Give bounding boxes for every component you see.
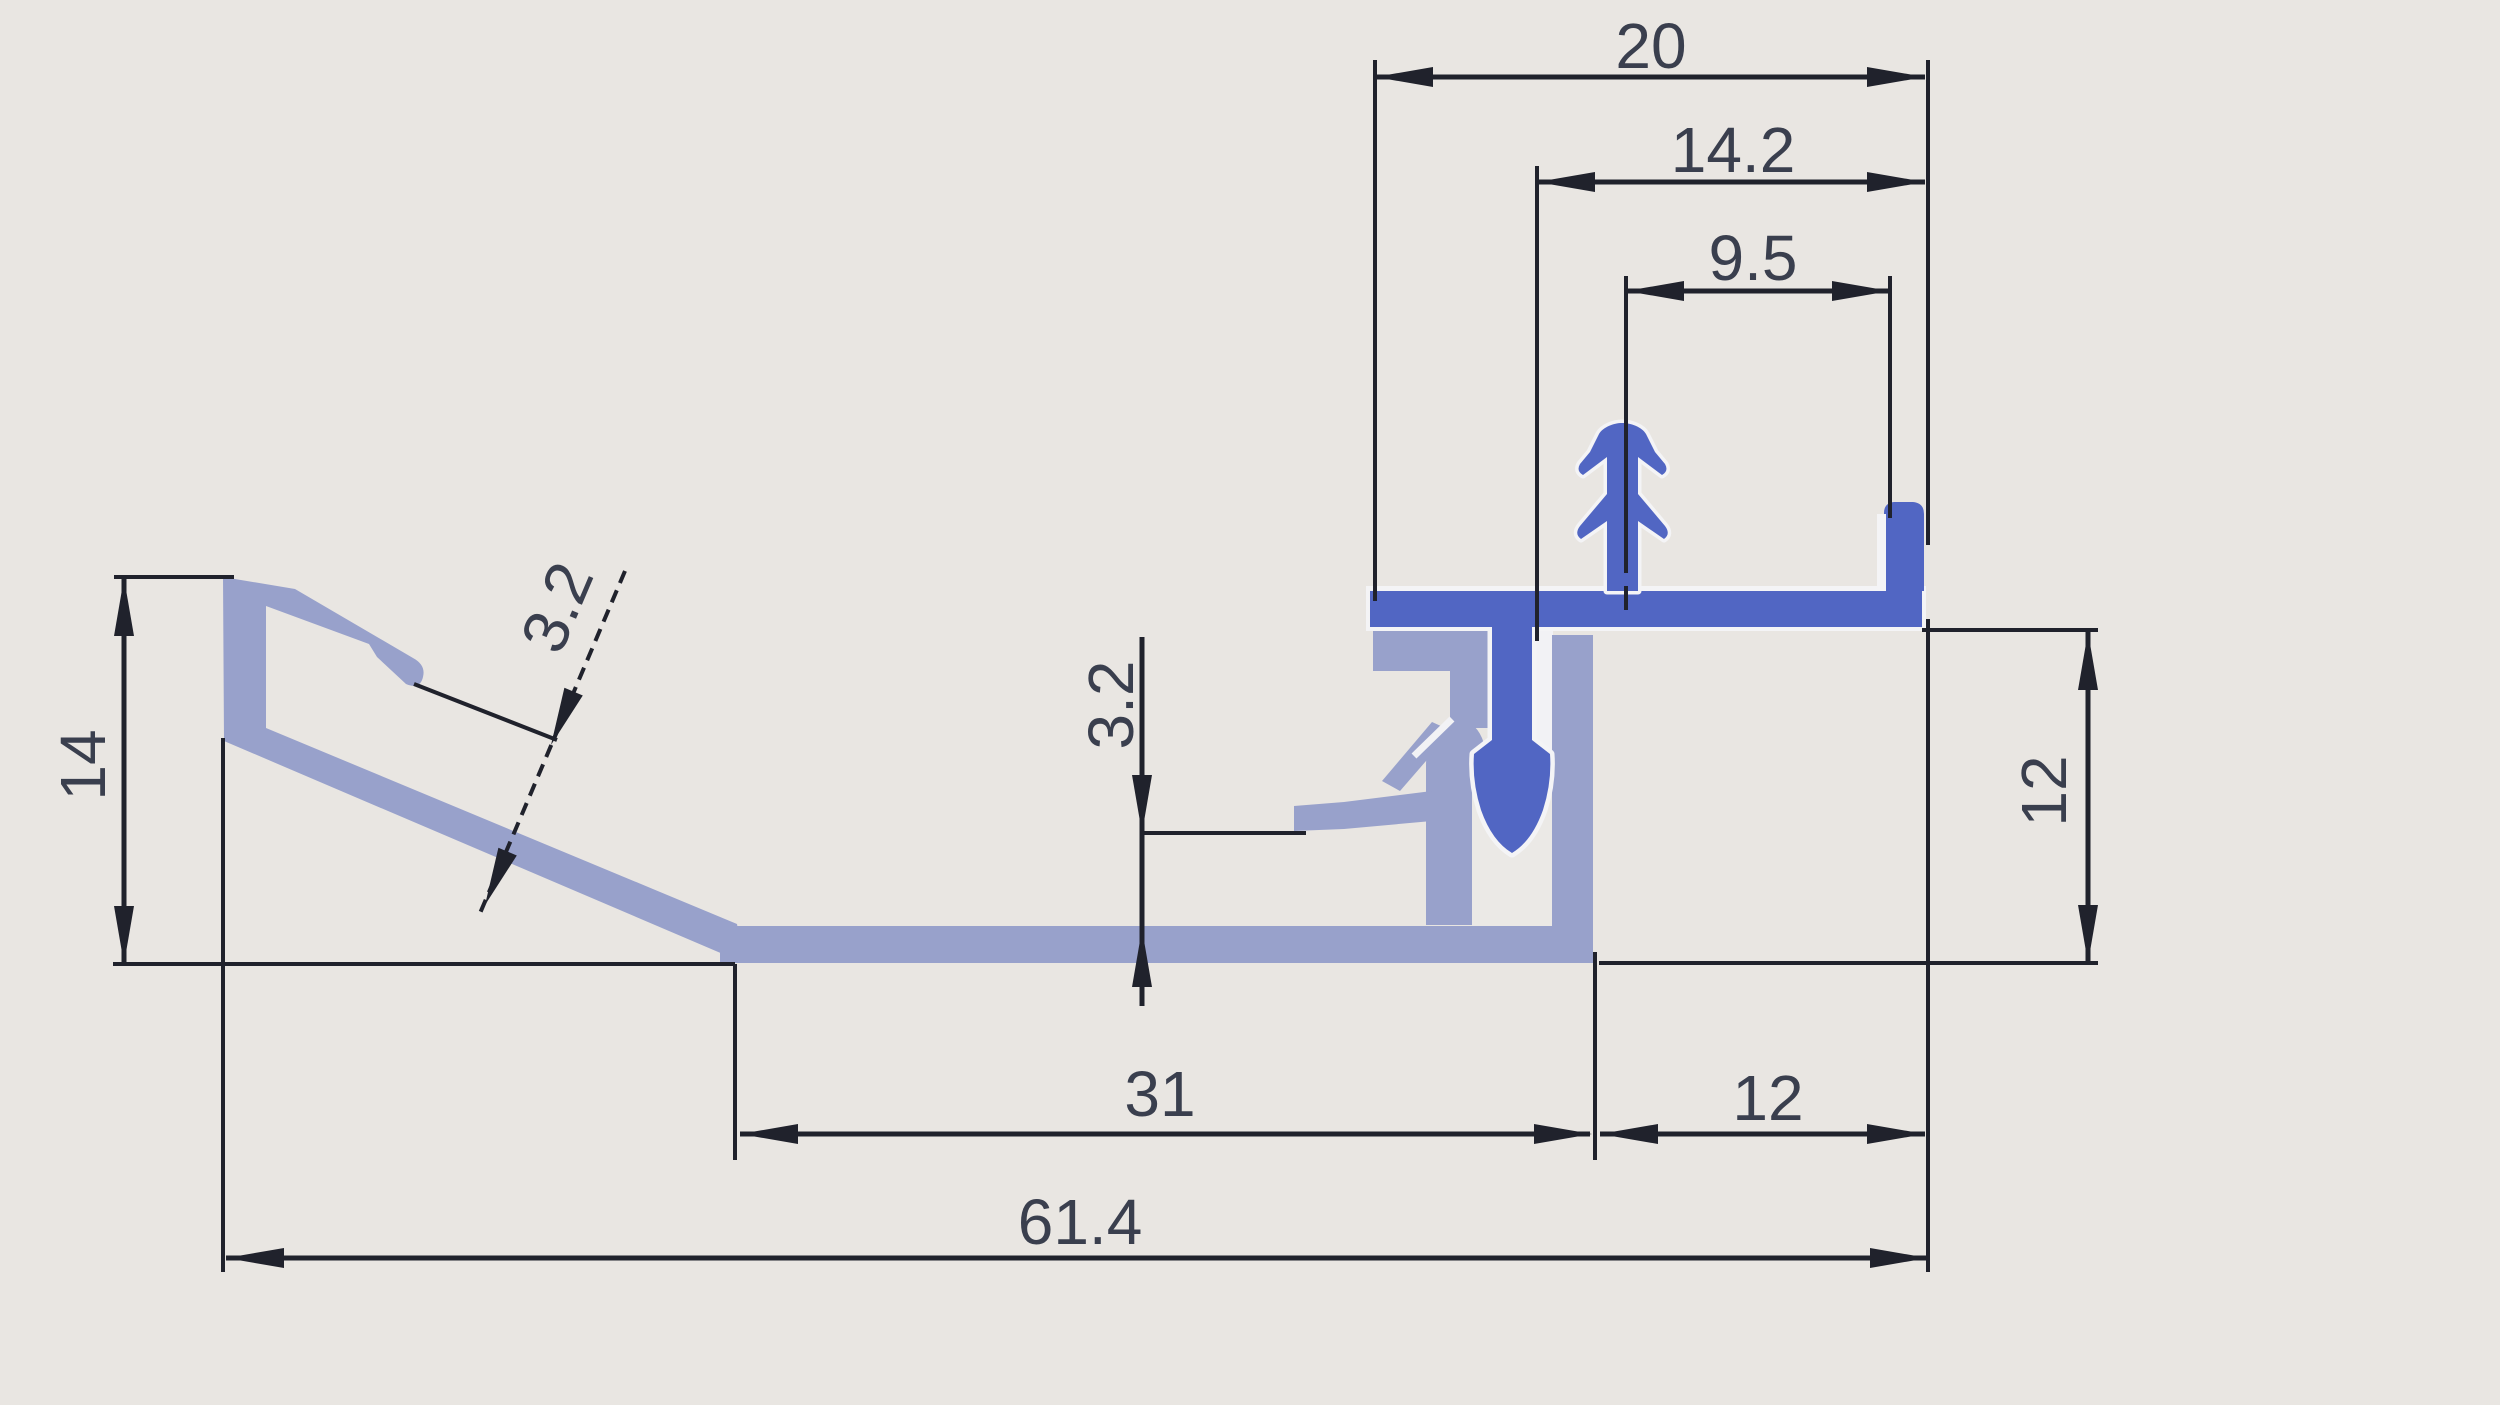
arrowhead dim 61.4 right	[1870, 1248, 1928, 1268]
ext 9.5 right	[1888, 276, 1892, 518]
arrowhead dim 12 bottom left	[1600, 1124, 1658, 1144]
lower profile: column right of notch	[1450, 665, 1490, 728]
white gap right of stem	[1534, 629, 1553, 753]
svg-text:14: 14	[47, 729, 119, 800]
arrowhead dim 3.2 middle upper	[1132, 775, 1152, 833]
lower profile: bottom horizontal bar	[720, 926, 1593, 963]
ext 12 right bottom	[1599, 961, 2098, 965]
svg-text:3.2: 3.2	[1075, 661, 1147, 750]
svg-text:14.2: 14.2	[1671, 114, 1796, 186]
arrowhead dim 20 right	[1867, 67, 1925, 87]
upper profile: fir-tree barb (up)	[1577, 423, 1668, 591]
dim 3.2 top-left line (dashed)	[478, 571, 625, 918]
svg-text:61.4: 61.4	[1018, 1186, 1143, 1258]
arrowhead dim 61.4 left	[226, 1248, 284, 1268]
ext 20 left	[1373, 60, 1377, 601]
dim 61.4 line	[226, 1256, 1928, 1261]
white halo behind stem	[1489, 620, 1539, 750]
dim 14.2 line	[1537, 180, 1925, 185]
lower profile: left hook + wiper arm (lavender)	[223, 577, 744, 963]
upper profile: top horizontal bar (dark blue)	[1370, 591, 1922, 627]
svg-text:12: 12	[1732, 1062, 1803, 1134]
arrowhead dim 9.5 left	[1626, 281, 1684, 301]
ext 12 right top	[1922, 628, 2098, 632]
upper profile: stem and down arrow	[1474, 627, 1551, 853]
lower profile: diagonal spur	[1382, 722, 1452, 791]
dim 12 bottom line	[1600, 1132, 1925, 1137]
lower profile: glass finger	[1294, 791, 1432, 831]
svg-text:12: 12	[2008, 755, 2080, 826]
arrowhead dim 12 right bottom	[2078, 905, 2098, 963]
upper profile: J-hook lip	[1884, 502, 1924, 591]
ext 20/14.2 right	[1926, 60, 1930, 545]
arrowhead dim 3.2 top-left upper	[551, 688, 583, 745]
lower profile: channel left wall with knob	[1426, 720, 1484, 925]
arrowhead dim 3.2 top-left lower	[485, 848, 517, 905]
white seam between spur and knob	[1414, 719, 1452, 756]
dim 12 right line	[2086, 632, 2091, 963]
svg-text:20: 20	[1615, 10, 1686, 82]
dim 31 line	[740, 1132, 1590, 1137]
lower profile: channel right wall	[1552, 635, 1593, 963]
arrowhead dim 14.2 right	[1867, 172, 1925, 192]
ext 31 right	[1593, 952, 1597, 1160]
ext 31 left	[733, 964, 737, 1160]
dim 3.2 middle line	[1140, 637, 1145, 1006]
ext 9.5 left	[1624, 276, 1628, 573]
arrowhead dim 3.2 middle lower	[1132, 929, 1152, 987]
arrowhead dim 31 right	[1534, 1124, 1592, 1144]
ext 3.2 top-left	[414, 684, 557, 740]
arrowhead dim 9.5 right	[1832, 281, 1890, 301]
ext 14 bottom long	[113, 962, 735, 966]
upper profile: stem and down arrow, white halo	[1474, 627, 1551, 853]
white halo behind upper profile bar	[1366, 586, 1926, 631]
lower profile: flange under top bar	[1373, 631, 1490, 671]
arrowhead dim 31 left	[740, 1124, 798, 1144]
svg-text:9.5: 9.5	[1709, 222, 1798, 294]
white inner notch of J-hook	[1877, 514, 1886, 591]
tick 3.2 middle	[1142, 831, 1306, 835]
arrowhead dim 14 bottom	[114, 906, 134, 964]
svg-text:31: 31	[1124, 1058, 1195, 1130]
dim 14 line	[122, 578, 127, 964]
arrowhead dim 12 bottom right	[1867, 1124, 1925, 1144]
arrowhead dim 20 left	[1375, 67, 1433, 87]
ext 14 top	[114, 575, 234, 579]
arrowhead dim 12 right top	[2078, 632, 2098, 690]
arrowhead dim 14.2 left	[1537, 172, 1595, 192]
ext 61.4 left	[221, 738, 225, 1272]
channel slot interior	[1472, 742, 1552, 926]
dim 20 line	[1375, 75, 1925, 80]
upper profile: fir-tree barb (up), white halo	[1577, 423, 1668, 591]
ext 14.2 left	[1535, 166, 1539, 641]
ext 61.4/12 right vertical	[1926, 619, 1930, 1272]
dim 9.5 line	[1626, 289, 1890, 294]
arrowhead dim 14 top	[114, 578, 134, 636]
